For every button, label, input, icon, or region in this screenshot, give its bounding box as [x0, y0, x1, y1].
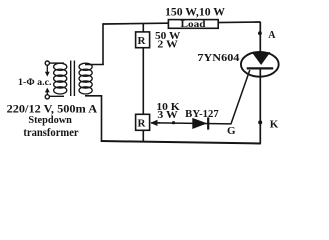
wire left vertical lower — [101, 96, 103, 142]
svg-text:3 W: 3 W — [157, 110, 178, 121]
diode D1 BY-127 — [192, 117, 208, 129]
svg-text:K: K — [270, 119, 279, 131]
svg-text:2 W: 2 W — [157, 39, 178, 51]
transformer T1 primary lead top — [49, 62, 64, 64]
SCR U1 cathode bar — [247, 67, 274, 69]
transformer T1 primary lead bottom — [49, 95, 64, 97]
transformer T1 primary terminal bottom — [45, 95, 49, 99]
transformer T1 primary terminal top — [45, 61, 49, 65]
node G label — [227, 125, 236, 137]
resistor R1 box — [136, 32, 150, 48]
part label 7YN604 — [197, 52, 240, 64]
value label 150 W, 10 W — [165, 6, 226, 18]
node A label — [268, 30, 276, 41]
svg-text:7YN604: 7YN604 — [197, 52, 240, 64]
potentiometer R2 box — [136, 114, 150, 130]
label 1-phase a.c. — [18, 78, 52, 88]
junction dot on gate wire — [172, 121, 175, 124]
value label BY-127 — [185, 109, 219, 120]
wire top rail — [103, 22, 261, 24]
node A dot — [258, 31, 262, 35]
svg-text:Load: Load — [181, 20, 207, 30]
svg-text:G: G — [227, 125, 236, 137]
transformer T1 secondary winding — [79, 63, 92, 94]
wire bottom rail — [101, 141, 261, 144]
ac input arrow up — [45, 88, 50, 95]
svg-text:transformer: transformer — [23, 127, 78, 139]
load resistor box 150W 10W — [168, 20, 218, 31]
label transformer rating line 1 — [7, 103, 98, 115]
svg-text:1-Φ a.c.: 1-Φ a.c. — [18, 78, 52, 88]
wire secondary bottom lead — [85, 95, 102, 97]
label transformer rating line 3 — [23, 127, 78, 139]
wire gate diagonal — [231, 70, 250, 124]
value label 10 K 3 W — [156, 102, 180, 121]
wire branch vertical R1 to rail — [142, 23, 144, 32]
svg-text:R: R — [138, 117, 147, 129]
wire between R1 and R2 — [142, 48, 144, 115]
wire anode vertical — [259, 22, 261, 53]
wire gate horizontal — [158, 123, 231, 124]
SCR U1 circle — [241, 52, 279, 77]
wire cathode vertical — [259, 69, 261, 144]
transformer T1 primary winding — [54, 63, 67, 94]
node K label — [270, 119, 279, 131]
wire left vertical upper — [102, 23, 104, 65]
transformer T1 core — [71, 61, 75, 97]
SCR U1 triangle — [252, 52, 271, 65]
wire R2 to bottom rail — [142, 130, 144, 142]
ac input arrow down — [45, 65, 50, 76]
node K dot — [258, 120, 262, 124]
svg-text:Stepdown: Stepdown — [28, 114, 72, 126]
wire secondary top lead — [85, 64, 104, 66]
svg-text:150 W,10 W: 150 W,10 W — [165, 6, 226, 18]
svg-text:A: A — [268, 30, 276, 41]
svg-text:BY-127: BY-127 — [185, 109, 219, 120]
label transformer rating line 2 — [28, 114, 72, 126]
value label 50 W 2 W — [155, 30, 180, 51]
svg-text:R: R — [138, 35, 147, 47]
potentiometer wiper arrow — [150, 120, 160, 126]
